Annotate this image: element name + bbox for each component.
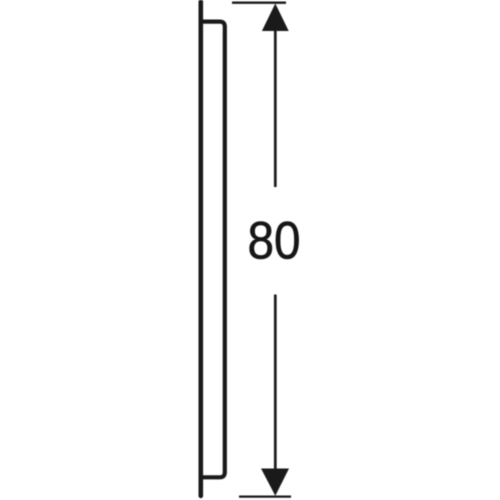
bottom arrowhead: [261, 469, 289, 496]
bottom extension line: [239, 495, 291, 497]
top arrowhead: [262, 4, 289, 32]
mirror front profile line: [199, 2, 204, 496]
top extension line: [232, 2, 286, 4]
mirror back bracket profile: [203, 22, 225, 478]
dimension line lower segment: [274, 295, 277, 471]
dimension line upper segment: [274, 28, 277, 187]
svg-text:80: 80: [247, 210, 300, 270]
